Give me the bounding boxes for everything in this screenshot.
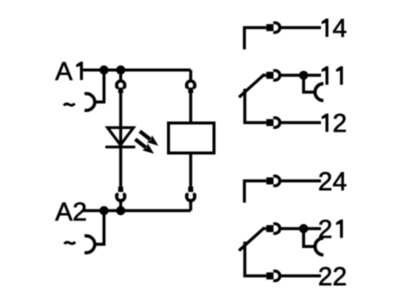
wire LED vertical <box>119 93 122 187</box>
wire 22 to label <box>280 274 321 277</box>
contact blade 21-22 <box>239 228 265 251</box>
wire contact 14 row <box>244 28 266 50</box>
pin LED bottom plug square <box>118 187 123 192</box>
wire 21 stub <box>263 227 266 230</box>
wire coil bottom vertical <box>189 153 192 187</box>
wire 21 socket L-drop <box>304 229 316 247</box>
label 24 <box>319 172 331 190</box>
pin 24 plug square <box>266 177 273 184</box>
wire 11 socket L-drop <box>304 75 316 92</box>
socket LED top (open down) <box>116 81 125 88</box>
pin 12 plug square <box>266 119 273 126</box>
socket A1 clamp arc <box>85 94 95 111</box>
node A1 junction dot 1 <box>99 65 108 74</box>
wire A2 rail <box>83 209 191 212</box>
node 11 junction dot <box>299 71 308 80</box>
socket 22 clamp crescent <box>273 271 279 281</box>
node 21 junction dot <box>299 224 308 233</box>
label 21 <box>319 220 331 238</box>
wire 14 to label <box>280 26 321 29</box>
pin 21 plug square <box>266 225 273 232</box>
wire 24 to label <box>280 179 321 182</box>
pin LED top plug square <box>118 88 123 93</box>
socket 12 clamp crescent <box>273 118 279 128</box>
wire A2 drop to coil terminal socket <box>95 211 104 245</box>
node A2 junction dot 2 <box>116 206 125 215</box>
LED D1 triangle <box>108 128 134 145</box>
LED D1 emission arrow 1 <box>139 130 159 146</box>
wire LED branch stub below A1 dot2 <box>119 70 122 80</box>
socket coil bottom (open up) <box>186 193 195 200</box>
pin 11 plug square <box>266 72 273 79</box>
wire coil drop stub below A1 rail <box>189 70 192 80</box>
label AC tilde A1 <box>64 104 75 106</box>
pin 14 plug square <box>266 24 273 31</box>
node A1 junction dot 2 <box>116 65 125 74</box>
socket 14 clamp crescent <box>273 23 279 33</box>
label 11 <box>322 66 329 84</box>
wire A1 rail <box>83 69 191 72</box>
socket A2 clamp arc <box>85 236 95 253</box>
wire LED branch stub above A2 dot2 <box>119 200 122 210</box>
relay coil K1 <box>169 123 215 153</box>
socket LED bottom (open up) <box>116 193 125 200</box>
wire contact 24 row <box>244 181 266 203</box>
pin coil top plug square <box>188 88 193 93</box>
contact blade 11-12 <box>239 74 265 97</box>
wire 11 to label <box>280 74 321 77</box>
label 12 <box>322 114 329 132</box>
wire 12 riser to blade pivot <box>245 89 266 123</box>
wire 12 to label <box>280 121 321 124</box>
socket 21 clamp crescent <box>273 224 279 234</box>
wire 11 stub <box>263 74 266 77</box>
label A2 <box>55 203 72 221</box>
node A2 junction dot 1 <box>99 206 108 215</box>
socket 11 clamp arc (open right) <box>315 84 323 101</box>
socket coil top (open down) <box>186 81 195 88</box>
LED D1 emission arrow 2 <box>134 138 154 154</box>
pin 22 plug square <box>266 272 273 279</box>
label AC tilde A2 <box>65 242 76 244</box>
label 22 <box>319 267 331 285</box>
wire 22 riser to blade pivot <box>245 242 266 276</box>
wire 21 to label <box>280 227 321 230</box>
wire coil top vertical <box>189 93 192 123</box>
socket 24 clamp crescent <box>273 176 279 186</box>
pin coil bottom plug square <box>188 187 193 192</box>
wire coil stub to A2 rail <box>189 200 192 210</box>
LED D1 cathode bar <box>105 146 135 149</box>
wire A1 drop to coil terminal socket <box>95 70 104 102</box>
socket 11 clamp crescent <box>273 71 279 81</box>
label A1 <box>55 62 72 80</box>
socket 21 clamp arc (open right) <box>315 238 323 255</box>
label 14 <box>322 18 329 36</box>
